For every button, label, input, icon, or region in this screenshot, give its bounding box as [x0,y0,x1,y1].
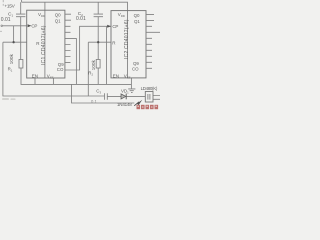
svg-text:0.01: 0.01 [1,17,11,23]
pin stubs U1 [65,14,71,62]
junction CP1/reset [12,41,14,43]
ground symbol [128,89,135,93]
IC U1 box [27,10,65,78]
capacitor C1 [16,2,25,59]
svg-text:0.01: 0.01 [76,16,86,22]
svg-text:CP: CP [31,24,37,29]
wire Q-output U1 down [65,39,77,85]
wire rail to bottom line [72,84,135,103]
wire reset node U1 [3,42,104,96]
svg-text:LD480(K): LD480(K) [141,86,158,91]
svg-text:CO: CO [57,67,64,72]
wire CP2 branch down [106,26,108,84]
arrow into CP2 [107,25,111,28]
wire reset node U2 [88,42,111,96]
wire R2 bottom [97,68,99,84]
border smudges bottom-left [2,98,16,100]
wire EN1 to ground [34,78,36,84]
wire CP1 input [3,25,27,27]
resistor R2 [96,60,100,69]
svg-text:Q0: Q0 [55,12,61,17]
junction C2/reset2 [97,41,99,43]
wires load right side [153,96,160,100]
svg-text:Q1: Q1 [55,18,61,23]
svg-text:EN: EN [32,73,38,78]
arrow into CP1 [28,24,32,27]
wire +15V rail [22,0,128,11]
svg-text:+15V: +15V [4,4,15,10]
red watermark [137,105,159,109]
capacitor C3 [105,93,121,99]
wire VDD drop U1 [44,2,46,10]
pin stubs U2 [146,14,160,68]
labels [1,4,158,108]
svg-text:CO: CO [132,67,139,72]
svg-text:CP: CP [112,24,118,29]
wire VSS1 to ground [52,78,54,84]
wire diode to load [126,95,145,97]
svg-text:EN: EN [113,73,119,78]
wire R1 bottom to ground rail [21,68,131,84]
diode VD1 [121,94,126,99]
border dashes [0,0,3,31]
wire CP1 branch down [13,26,15,42]
svg-text:IC2 CD4017(+6): IC2 CD4017(+6) [124,19,130,59]
svg-text:1N4148: 1N4148 [117,102,132,107]
resistor R1 [19,60,23,69]
wire CO1 to CP2 [65,26,111,70]
arrow to load [134,102,139,106]
svg-text:Q1: Q1 [134,19,140,24]
load box (piezo) [145,92,153,103]
svg-text:Q0: Q0 [134,13,140,18]
IC U2 box [111,11,146,78]
svg-text:Q9: Q9 [133,61,139,66]
capacitor C2 [94,2,103,59]
svg-text:0.1: 0.1 [91,99,97,104]
svg-text:100k: 100k [91,59,96,70]
input terminal [1,25,3,27]
svg-text:100k: 100k [9,53,14,64]
svg-text:IC1 CD4017(+6): IC1 CD4017(+6) [41,25,47,65]
wire VSS2 ground drop [130,78,132,89]
